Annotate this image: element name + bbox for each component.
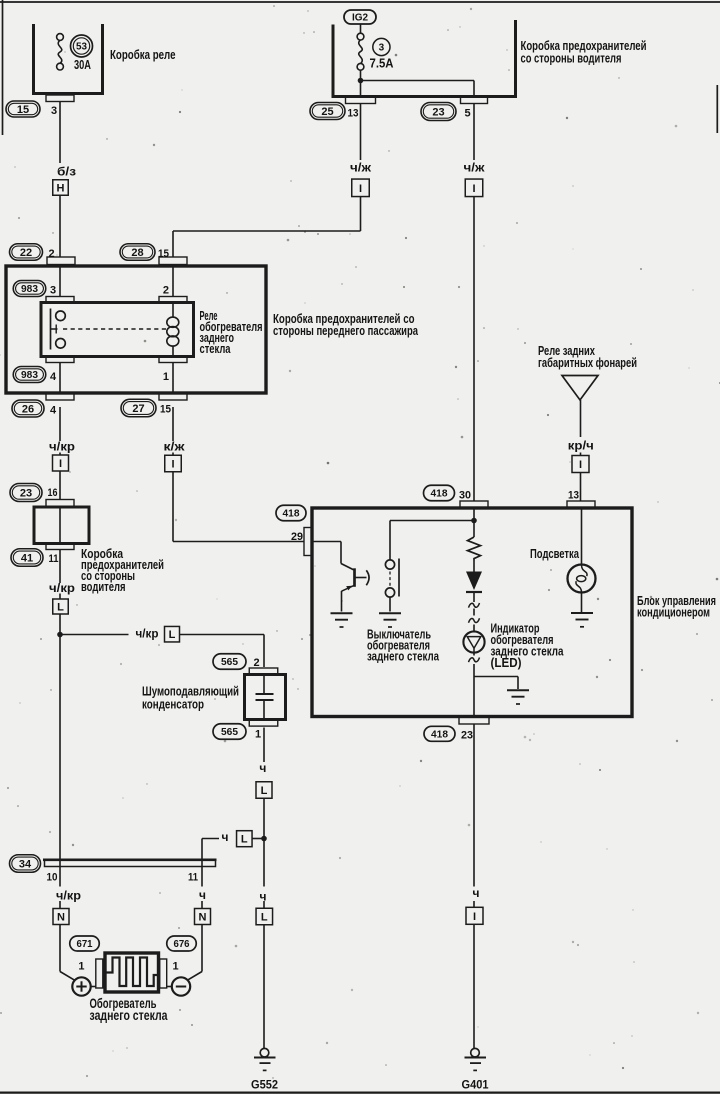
svg-text:27: 27 [132, 403, 144, 415]
svg-text:кондиционером: кондиционером [637, 605, 710, 620]
svg-text:б/з: б/з [57, 165, 76, 179]
svg-text:23: 23 [461, 730, 473, 742]
svg-text:671: 671 [77, 939, 93, 950]
svg-text:G401: G401 [462, 1078, 489, 1092]
svg-text:1: 1 [163, 371, 169, 383]
svg-text:I: I [472, 183, 475, 195]
svg-text:15: 15 [160, 404, 171, 416]
svg-text:заднего стекла: заднего стекла [90, 1008, 168, 1023]
svg-text:11: 11 [188, 872, 198, 884]
svg-text:стекла: стекла [200, 341, 232, 356]
svg-text:к/ж: к/ж [164, 440, 186, 454]
svg-text:водителя: водителя [81, 580, 126, 594]
svg-text:I: I [59, 458, 62, 470]
svg-text:3: 3 [51, 105, 57, 117]
svg-text:N: N [57, 911, 65, 923]
svg-text:565: 565 [221, 657, 238, 668]
svg-text:983: 983 [21, 284, 38, 295]
svg-text:30: 30 [459, 490, 471, 502]
svg-text:676: 676 [174, 939, 190, 950]
svg-text:25: 25 [321, 106, 333, 118]
svg-text:ч: ч [222, 830, 229, 844]
svg-text:1: 1 [255, 729, 261, 741]
svg-text:ч/ж: ч/ж [350, 161, 372, 175]
svg-text:L: L [261, 911, 268, 923]
svg-text:ч: ч [260, 890, 267, 904]
svg-text:кр/ч: кр/ч [568, 439, 594, 453]
svg-text:3: 3 [50, 285, 56, 297]
svg-text:конденсатор: конденсатор [142, 697, 204, 712]
svg-text:2: 2 [163, 285, 169, 297]
svg-text:N: N [199, 911, 207, 923]
svg-text:Коробка реле: Коробка реле [110, 47, 176, 62]
svg-text:4: 4 [50, 371, 57, 383]
svg-text:I: I [359, 183, 362, 195]
svg-text:53: 53 [76, 42, 87, 53]
svg-text:Подсветка: Подсветка [530, 546, 580, 561]
svg-text:983: 983 [21, 370, 38, 381]
svg-text:4: 4 [50, 405, 57, 417]
svg-text:ч/кр: ч/кр [49, 440, 75, 454]
svg-text:26: 26 [22, 403, 34, 415]
svg-text:7.5A: 7.5A [370, 57, 394, 71]
svg-text:13: 13 [348, 108, 359, 120]
svg-text:29: 29 [291, 531, 303, 543]
svg-text:ч/кр: ч/кр [56, 889, 81, 903]
svg-text:ч/ж: ч/ж [464, 161, 486, 175]
svg-text:22: 22 [20, 247, 32, 259]
svg-text:565: 565 [221, 727, 238, 738]
svg-text:23: 23 [432, 106, 444, 118]
svg-text:IG2: IG2 [352, 13, 369, 24]
svg-text:ч: ч [199, 888, 206, 902]
svg-text:418: 418 [283, 509, 300, 520]
svg-text:L: L [57, 601, 64, 613]
svg-text:34: 34 [19, 858, 32, 870]
svg-text:28: 28 [131, 247, 143, 259]
svg-text:I: I [579, 459, 582, 471]
svg-text:11: 11 [49, 553, 59, 565]
svg-text:стороны переднего пассажира: стороны переднего пассажира [273, 323, 419, 338]
svg-text:1: 1 [78, 961, 84, 973]
svg-text:ч/кр: ч/кр [49, 581, 75, 595]
svg-text:L: L [241, 834, 248, 846]
svg-text:13: 13 [568, 490, 579, 502]
svg-text:2: 2 [254, 657, 260, 669]
svg-text:5: 5 [465, 108, 471, 120]
svg-text:15: 15 [17, 104, 29, 116]
svg-text:L: L [169, 629, 176, 641]
svg-text:со стороны водителя: со стороны водителя [521, 51, 622, 66]
svg-text:418: 418 [431, 489, 448, 500]
svg-text:23: 23 [20, 487, 32, 499]
svg-text:16: 16 [48, 487, 58, 499]
svg-text:ч: ч [259, 761, 266, 775]
svg-text:418: 418 [431, 729, 448, 740]
svg-text:габаритных фонарей: габаритных фонарей [538, 355, 637, 370]
svg-text:10: 10 [47, 872, 58, 884]
svg-text:I: I [473, 911, 476, 923]
svg-text:15: 15 [158, 248, 169, 260]
svg-text:I: I [171, 458, 174, 470]
svg-text:30A: 30A [74, 58, 91, 72]
svg-text:L: L [261, 785, 268, 797]
svg-text:G552: G552 [251, 1078, 278, 1092]
svg-text:2: 2 [49, 248, 55, 260]
svg-text:1: 1 [173, 961, 179, 973]
svg-text:H: H [57, 182, 65, 194]
svg-text:3: 3 [379, 43, 385, 54]
svg-text:заднего стекла: заднего стекла [367, 649, 440, 664]
svg-text:41: 41 [21, 552, 33, 564]
svg-text:ч/кр: ч/кр [136, 627, 159, 641]
svg-text:ч: ч [473, 886, 480, 900]
svg-text:(LED): (LED) [491, 655, 522, 670]
